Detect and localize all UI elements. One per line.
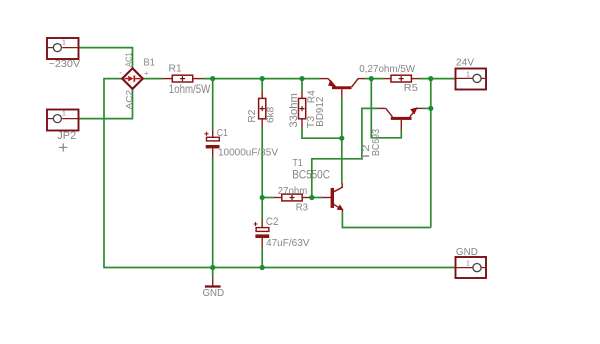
wire R4 bottom to T3 base node	[302, 127, 342, 138]
bridge rectifier B1	[122, 68, 143, 89]
wire T2 emitter to output node	[423, 107, 431, 109]
junction node R1 out / C1	[210, 76, 215, 81]
resistor R4	[299, 91, 306, 127]
wire T2 base net from top rail	[371, 79, 401, 138]
wire JP1 to bridge AC1	[79, 48, 133, 69]
wire T3 collector to R5	[365, 78, 383, 80]
wire R1 to T3 emitter (top rail)	[203, 78, 320, 80]
wire R5 to 24V connector	[420, 78, 456, 80]
svg-text:R3: R3	[296, 202, 308, 214]
resistor R2	[259, 91, 266, 127]
svg-text:R5: R5	[404, 82, 418, 94]
svg-text:10000uF/35V: 10000uF/35V	[218, 148, 278, 159]
resistor R5	[383, 75, 420, 82]
junction node output 24V	[428, 76, 433, 81]
svg-text:+: +	[144, 68, 149, 77]
svg-text:27ohm: 27ohm	[278, 186, 308, 197]
transistor T1 BC550C	[322, 183, 344, 212]
svg-text:0,27ohm/5W: 0,27ohm/5W	[359, 64, 415, 75]
svg-text:C1: C1	[217, 127, 228, 139]
svg-text:1: 1	[62, 40, 66, 47]
svg-text:6k8: 6k8	[265, 107, 277, 123]
wire R4 top lead	[301, 79, 303, 91]
svg-text:R2: R2	[246, 109, 258, 122]
svg-text:1: 1	[466, 72, 470, 79]
svg-text:GND: GND	[203, 288, 225, 299]
junction node R3 left / C2	[260, 195, 265, 200]
transistor T2 BC693	[378, 107, 423, 130]
wire R2 bottom to R3 node	[261, 127, 263, 219]
svg-text:1: 1	[62, 111, 66, 118]
svg-text:33ohm: 33ohm	[288, 93, 300, 128]
connector JP1	[47, 38, 79, 59]
wire T3 base down to node	[341, 98, 343, 138]
svg-text:B1: B1	[144, 57, 156, 69]
wire JP2 to bridge AC2	[79, 89, 133, 119]
wire R3 right to T1 base	[310, 197, 323, 199]
svg-text:~230V: ~230V	[49, 59, 81, 70]
resistor R3	[274, 194, 310, 201]
junction node T1 base	[309, 195, 314, 200]
svg-text:GND: GND	[456, 247, 478, 258]
resistor R1	[162, 75, 203, 82]
connector GND out	[456, 257, 487, 278]
wire C1 branch upper	[212, 79, 214, 130]
wire output node down	[430, 79, 432, 228]
junction node T3 base	[339, 136, 344, 141]
junction node R4 top	[299, 76, 304, 81]
junction node T2 emitter	[428, 106, 433, 111]
connector JP2	[47, 110, 79, 131]
wire R2 top lead	[261, 79, 263, 91]
svg-text:AC2: AC2	[124, 90, 134, 110]
wire bridge plus to R1	[142, 78, 162, 80]
svg-text:C2: C2	[266, 216, 279, 228]
transistor T3 BD912	[320, 79, 365, 98]
connector X24V	[456, 69, 487, 90]
ground symbol GND	[205, 279, 221, 287]
junction node GND bus C2	[260, 265, 265, 270]
svg-text:24V: 24V	[456, 58, 475, 69]
wire node to T1 collector	[341, 138, 343, 183]
wire R3 left	[262, 197, 274, 199]
capacitor C1	[205, 130, 220, 158]
junction node T2 base tap	[369, 76, 374, 81]
wire C2 bottom to bus	[261, 247, 263, 268]
wire T2 collector to T1 base node	[312, 108, 378, 197]
wire C1 branch lower	[212, 158, 214, 268]
svg-text:BC693: BC693	[370, 129, 382, 156]
svg-text:+: +	[58, 138, 68, 157]
junction node GND bus C1	[210, 265, 215, 270]
junction node R2 top	[260, 76, 265, 81]
svg-text:47uF/63V: 47uF/63V	[266, 238, 310, 249]
svg-text:BD912: BD912	[314, 97, 326, 127]
wire T1 emitter loop	[342, 212, 430, 228]
svg-text:R1: R1	[169, 63, 182, 75]
svg-text:AC1: AC1	[124, 52, 134, 67]
wire bridge minus to left rail and bottom GND bus	[104, 79, 456, 268]
capacitor C2	[254, 219, 270, 247]
svg-text:1: 1	[466, 261, 470, 268]
svg-text:BC550C: BC550C	[292, 167, 330, 181]
svg-text:1ohm/5W: 1ohm/5W	[169, 82, 211, 96]
wire GND symbol stem	[212, 268, 214, 279]
